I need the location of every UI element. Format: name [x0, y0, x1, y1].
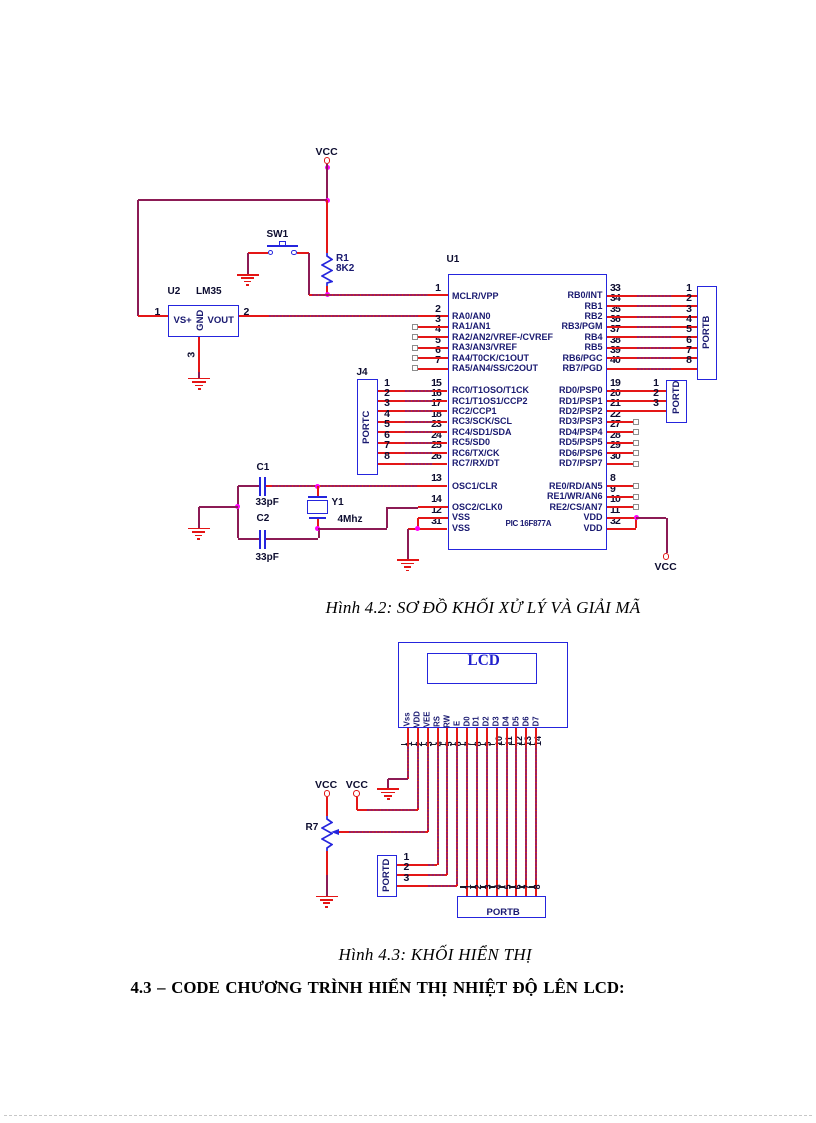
wire U1 pin 35 (RB2) to PORTB [607, 316, 697, 318]
U1 right pin name VDD [483, 524, 603, 533]
switch SW1 body [267, 241, 298, 256]
crystal Y1 refdes [332, 498, 344, 508]
IC U1 PIC16F877A body [448, 274, 608, 550]
wire stub U1 pin 27 [607, 431, 633, 433]
U1 pin number 8 [610, 473, 616, 484]
PORTB pin number 1 [572, 283, 692, 294]
connector J4 refdes [357, 368, 368, 378]
PORTB display pin tick 5 [499, 886, 505, 888]
potentiometer R7 body [321, 816, 333, 851]
LCD pin number tick 3 [420, 744, 426, 746]
wire OSC2 to U1 pin 14 (maroon) [387, 507, 418, 509]
wire U1 pin 37 (RB4) to PORTB [607, 336, 697, 338]
wire SW1 left pin [248, 252, 268, 254]
ground for LCD Vss [377, 788, 399, 801]
U1 pin number 4 [321, 324, 441, 335]
unconnected pin square (pin 29) [633, 450, 639, 456]
U1 left pin name RA0/AN0 [452, 312, 491, 321]
capacitor C2 refdes [257, 514, 270, 524]
unconnected pin square (pin 6) [412, 355, 418, 361]
PORTB display pin tick 4 [489, 886, 495, 888]
junction VSS net [415, 526, 420, 531]
PORTB display pin tick 7 [519, 886, 525, 888]
U2 pin number 2 [244, 307, 250, 318]
wire OSC2 bottom rail [318, 528, 388, 530]
U1 pin number 35 [610, 304, 620, 315]
LCD pin number tick 14 [529, 744, 535, 746]
wire U1 pin 21 (RD2) to PORTD [607, 410, 667, 412]
power symbol VCC pin circle (top) [324, 157, 331, 164]
U2 pin number 3 (rotated) [187, 295, 199, 415]
junction ground rail tap [235, 504, 240, 509]
resistor R1 value 8K2 [336, 264, 354, 274]
U1 pin number 25 [321, 440, 441, 451]
U2 pin name VOUT [208, 316, 234, 326]
LCD pin name RW (rotated) [443, 661, 452, 781]
wire VCC branch to left rail [138, 199, 328, 201]
wire J4 pin 7 to U1 (RC6) [378, 452, 448, 454]
U1 right pin name RD0/PSP0 [483, 386, 603, 395]
LCD label [468, 653, 500, 668]
wire C2 to crystal bottom [318, 528, 320, 538]
PORTB display pin number 2 (rotated) [474, 827, 484, 947]
LCD pin number 3 (rotated) [425, 684, 435, 804]
wire stub U1 pin 30 [607, 463, 633, 465]
wire J4 pin 4 to U1 (RC3) [378, 421, 448, 423]
wire C2 bottom right segment [266, 538, 318, 540]
LCD pin number 7 (rotated) [464, 684, 474, 804]
U1 left pin name RC4/SD1/SDA [452, 428, 512, 437]
wire stub U1 pin 5 [418, 347, 448, 349]
resistor R1 body [321, 253, 333, 286]
PORTB display pin tick 6 [509, 886, 515, 888]
unconnected pin square (pin 4) [412, 334, 418, 340]
PORTB display pin number 4 (rotated) [494, 827, 504, 947]
PORTB display pin tick 1 [460, 886, 466, 888]
LCD module outer body [398, 642, 568, 728]
LCD pin name VEE (rotated) [424, 659, 433, 779]
connector PORTD body (display) [377, 855, 397, 898]
wire U1 pin 38 (RB5) to PORTB [607, 347, 697, 349]
wire R7 bottom [326, 851, 328, 875]
U2 pin number 1 [155, 307, 161, 318]
LCD pin number tick 10 [489, 744, 495, 746]
U1 right pin name RD3/PSP3 [483, 417, 603, 426]
power symbol VCC net label (top) [316, 147, 338, 158]
wire stub U1 pin 7 [418, 368, 448, 370]
unconnected pin square (pin 22) [633, 419, 639, 425]
U1 pin number 9 [610, 484, 616, 495]
PORTB display pin tick 8 [529, 886, 535, 888]
LCD pin number 2 (rotated) [415, 684, 425, 804]
wire SW1 right pin [297, 252, 309, 254]
U1 right pin name RB2 [483, 312, 603, 321]
connector PORTD label (rotated) [672, 337, 683, 457]
wire stub U1 pin 4 [418, 336, 448, 338]
wire ground rail left of caps [237, 486, 239, 538]
LCD pin name D1 (rotated) [473, 661, 482, 781]
wire ground tap vertical [198, 507, 200, 529]
wire J4 pin 1 to U1 (RC0) [378, 390, 448, 392]
PORTB display pin number 5 (rotated) [504, 827, 514, 947]
PORTD display pin number 2 [404, 862, 410, 873]
U1 right pin name RB0/INT [483, 291, 603, 300]
wire Vss ground drop [387, 779, 389, 789]
U1 pin number 13 [321, 473, 441, 484]
potentiometer R7 wiper arrow [331, 829, 339, 835]
wire LCD pin 10 (D3) to PORTB [496, 728, 498, 897]
U1 right pin name RE1/WR/AN6 [483, 492, 603, 501]
wire ground tap horizontal [199, 506, 238, 508]
wire LCD pin 12 (D5) to PORTB [515, 728, 517, 897]
U1 left pin name OSC2/CLK0 [452, 503, 503, 512]
U1 pin number 38 [610, 335, 620, 346]
LCD pin name D5 (rotated) [512, 661, 521, 781]
wire VEE to R7 wiper [339, 831, 428, 833]
wire LCD pin 4 drop to PORTD [437, 728, 439, 866]
unconnected pin square (pin 9) [633, 494, 639, 500]
wire U1 pin 31 VSS stub [408, 528, 448, 530]
wire LCD pin 2 (VDD) drop [417, 728, 419, 811]
wire VCC to R7 top [326, 797, 328, 816]
ground below R7 [316, 896, 338, 909]
connector PORTD body [666, 380, 687, 424]
wire LM35 pin 1 stub [138, 315, 168, 317]
junction crystal bottom / OSC2 [315, 526, 320, 531]
U1 pin number 27 [610, 419, 620, 430]
wire U2 pin 3 to ground [198, 337, 200, 372]
power symbol VCC circle (R7) [324, 790, 331, 797]
LCD pin number 5 (rotated) [445, 684, 455, 804]
PORTB display pin number 3 (rotated) [484, 827, 494, 947]
IC U1 refdes [447, 255, 460, 265]
LCD pin name D7 (rotated) [532, 661, 541, 781]
wire stub U1 pin 6 [418, 357, 448, 359]
U1 pin number 24 [321, 430, 441, 441]
resistor R1 refdes [336, 254, 349, 264]
capacitor C2 plates [259, 530, 266, 549]
wire PORTD pin 2 horizontal [397, 874, 447, 876]
wire SW1 right down to MCLR net [308, 253, 310, 295]
wire LCD pin 8 (D1) to PORTB [476, 728, 478, 897]
PORTB display pin tick 3 [480, 886, 486, 888]
U1 pin number 28 [610, 430, 620, 441]
wire left rail down to LM35 pin1 [137, 200, 139, 316]
U1 right pin name RD4/PSP4 [483, 428, 603, 437]
sensor U2 refdes [168, 287, 181, 297]
wire LCD pin 14 (D7) to PORTB [535, 728, 537, 897]
U1 left pin name MCLR/VPP [452, 292, 499, 301]
unconnected pin square (pin 10) [633, 504, 639, 510]
wire LCD pin 5 drop to PORTD [446, 728, 448, 876]
junction VDD net [634, 515, 639, 520]
LCD pin name D4 (rotated) [502, 661, 511, 781]
capacitor C1 value 33pF [256, 498, 279, 508]
U1 pin number 6 [321, 345, 441, 356]
U2 pin name GND (rotated) [195, 260, 206, 380]
LCD pin number 1 (rotated) [405, 684, 415, 804]
power symbol VCC label (bottom right) [655, 562, 677, 573]
wire R1 bottom to MCLR net [326, 286, 328, 295]
LCD pin number tick 6 [450, 744, 456, 746]
unconnected pin square (pin 8) [633, 483, 639, 489]
LCD pin number tick 1 [401, 744, 407, 746]
U1 left pin name RC7/RX/DT [452, 459, 500, 468]
PORTB pin number 2 [572, 293, 692, 304]
U1 right pin name RD1/PSP1 [483, 397, 603, 406]
U1 pin number 33 [610, 283, 620, 294]
crystal Y1 value 4Mhz [338, 515, 363, 525]
connector PORTB body (display) [457, 896, 546, 918]
unconnected pin square (pin 28) [633, 440, 639, 446]
wire OSC1 net to U1 pin 13 [266, 485, 447, 487]
LCD pin name RS (rotated) [433, 661, 442, 781]
PORTB display pin number 6 (rotated) [514, 827, 524, 947]
wire LCD pin 1 (Vss) drop [407, 728, 409, 779]
wire OSC2 riser [386, 507, 388, 528]
U1 pin number 7 [321, 355, 441, 366]
U1 pin number 34 [610, 293, 620, 304]
wire J4 pin 8 to U1 (RC7) [378, 463, 448, 465]
wire R7 to ground [326, 875, 328, 896]
wire LCD pin 13 (D6) to PORTB [525, 728, 527, 897]
U1 left pin name RA5/AN4/SS/C2OUT [452, 364, 538, 373]
wire J4 pin 3 to U1 (RC2) [378, 410, 448, 412]
LCD pin number 6 (rotated) [454, 684, 464, 804]
wire VCC vertical to branch [326, 164, 328, 201]
PORTB pin number 8 [572, 355, 692, 366]
wire U2 VOUT to U1 pin 2 (RA0) [239, 315, 448, 317]
capacitor C1 refdes [257, 463, 270, 473]
wire stub U1 pin 8 [607, 485, 633, 487]
sensor U2 value LM35 [196, 287, 222, 297]
connector PORTB body [697, 286, 718, 381]
caption Hinh 4.2 [326, 599, 641, 616]
U1 right pin name RE2/CS/AN7 [483, 503, 603, 512]
U1 pin number 19 [610, 378, 620, 389]
wire J4 pin 2 to U1 (RC1) [378, 400, 448, 402]
J4 pin number 1 [270, 378, 390, 389]
wire U2 pin3 ground segment [198, 372, 200, 378]
unconnected pin square (pin 5) [412, 345, 418, 351]
wire J4 pin 5 to U1 (RC4) [378, 431, 448, 433]
U1 right pin name RB7/PGD [483, 364, 603, 373]
unconnected pin square (pin 7) [412, 365, 418, 371]
PORTB pin number 5 [572, 324, 692, 335]
heading 4.3 CODE [131, 980, 625, 997]
switch SW1 refdes [267, 230, 289, 240]
U1 right pin name RB6/PGC [483, 354, 603, 363]
junction R1 / MCLR net [325, 292, 330, 297]
PORTB display pin number 8 (rotated) [533, 827, 543, 947]
wire crystal top pin [317, 486, 319, 496]
U1 right pin name RD7/PSP7 [483, 459, 603, 468]
capacitor C2 value 33pF [256, 553, 279, 563]
wire LCD pin 11 (D4) to PORTB [506, 728, 508, 897]
U1 pin number 21 [610, 398, 620, 409]
wire MCLR net to U1 pin 1 [309, 294, 448, 296]
U1 right pin name VDD [483, 513, 603, 522]
J4 pin number 8 [270, 451, 390, 462]
LCD pin number tick 11 [499, 744, 505, 746]
junction dot below VCC [325, 165, 330, 170]
U1 left pin name RC2/CCP1 [452, 407, 497, 416]
power symbol VCC circle (LCD VDD) [353, 790, 360, 797]
LCD pin number tick 8 [470, 744, 476, 746]
crystal Y1 body [307, 496, 329, 519]
U1 pin number 23 [321, 419, 441, 430]
connector PORTD label (rotated, display) [382, 815, 393, 935]
junction crystal top / OSC1 [315, 484, 320, 489]
U1 right pin name RE0/RD/AN5 [483, 482, 603, 491]
U1 right pin name RB5 [483, 343, 603, 352]
U1 pin number 3 [321, 314, 441, 325]
junction node VCC branch [325, 198, 330, 203]
J4 pin number 3 [270, 398, 390, 409]
wire stub U1 pin 10 [607, 506, 633, 508]
unconnected pin square (pin 30) [633, 461, 639, 467]
PORTB pin number 7 [572, 345, 692, 356]
ground below U1 VSS [397, 559, 419, 572]
U1 pin number 20 [610, 388, 620, 399]
wire stub U1 pin 9 [607, 496, 633, 498]
LCD pin name Vss (rotated) [404, 659, 413, 779]
LCD pin number 9 (rotated) [484, 684, 494, 804]
wire Vss to ground horiz [388, 778, 408, 780]
connector PORTB label (rotated) [701, 273, 712, 393]
U1 left pin name RC6/TX/CK [452, 449, 500, 458]
wire U1 pin 36 (RB3) to PORTB [607, 326, 697, 328]
J4 pin number 5 [270, 419, 390, 430]
U2 pin name VS+ [174, 316, 192, 326]
connector PORTB label (display) [487, 908, 520, 918]
U1 pin number 5 [321, 335, 441, 346]
U1 pin number 39 [610, 345, 620, 356]
LCD pin name D0 (rotated) [463, 661, 472, 781]
U1 left pin name RC1/T1OS1/CCP2 [452, 397, 528, 406]
wire U1 pin 20 (RD1) to PORTD [607, 400, 667, 402]
J4 pin number 7 [270, 440, 390, 451]
wire SW1 left to ground [247, 253, 249, 274]
wire stub U1 pin 22 [607, 421, 633, 423]
U1 left pin name RA3/AN3/VREF [452, 343, 517, 352]
PORTB display pin number 7 (rotated) [523, 827, 533, 947]
U1 pin number 29 [610, 440, 620, 451]
wire LCD pin 3 (VEE) drop [427, 728, 429, 832]
LCD pin number 4 (rotated) [435, 684, 445, 804]
LCD pin number tick 13 [519, 744, 525, 746]
U1 left pin name RC0/T1OSO/T1CK [452, 386, 529, 395]
wire LCD pin 6 drop to PORTD [456, 728, 458, 886]
U1 left pin name VSS [452, 524, 470, 533]
U1 left pin name VSS [452, 513, 470, 522]
U1 part label PIC 16F877A [506, 520, 552, 528]
LCD pin number tick 5 [440, 744, 446, 746]
wire U1 pin 32 VDD stub [607, 528, 637, 530]
U1 pin number 22 [610, 409, 620, 420]
U1 pin number 12 [321, 505, 441, 516]
U1 left pin name RC5/SD0 [452, 438, 490, 447]
U1 right pin name RD5/PSP5 [483, 438, 603, 447]
LCD pin number 13 (rotated) [523, 681, 533, 801]
ground left of caps [188, 528, 210, 541]
wire VDD to VCC [357, 809, 418, 811]
LCD pin number tick 12 [509, 744, 515, 746]
sensor U2 LM35 body [168, 305, 239, 338]
power symbol VCC label (R7) [315, 780, 337, 791]
potentiometer R7 refdes [306, 823, 319, 833]
U1 left pin name RA1/AN1 [452, 322, 491, 331]
U1 left pin name RA4/T0CK/C1OUT [452, 354, 529, 363]
wire C2 bottom left segment [238, 538, 260, 540]
power symbol VCC circle (bottom right) [663, 553, 670, 560]
wire U1 pin 12 VSS stub [418, 517, 448, 519]
wire U1 pin 40 (RB7) to PORTB [607, 368, 697, 370]
wire VCC to R1 top [326, 200, 328, 253]
wire VSS to ground [407, 529, 409, 560]
wire OSC1 net left segment [238, 485, 260, 487]
LCD pin name VDD (rotated) [414, 659, 423, 779]
wire PORTD pin 1 horizontal [397, 864, 437, 866]
PORTB pin number 6 [572, 335, 692, 346]
wire stub U1 pin 3 [418, 326, 448, 328]
U1 pin number 1 [321, 283, 441, 294]
LCD pin name E (rotated) [453, 664, 462, 784]
U1 pin number 40 [610, 355, 620, 366]
LCD pin name D2 (rotated) [483, 661, 492, 781]
power symbol VCC label (LCD VDD) [346, 780, 368, 791]
U1 pin number 10 [610, 494, 620, 505]
capacitor C1 plates [259, 477, 266, 496]
PORTD pin number 3 [539, 398, 659, 409]
ground below U2 [188, 378, 210, 391]
LCD pin number 11 (rotated) [504, 681, 514, 801]
J4 pin number 4 [270, 409, 390, 420]
U1 pin number 37 [610, 324, 620, 335]
U1 pin number 26 [321, 451, 441, 462]
wire OSC2 to U1 pin 14 (red) [418, 506, 448, 508]
wire stub U1 pin 28 [607, 442, 633, 444]
U1 pin number 18 [321, 409, 441, 420]
wire U1 pin 11 VDD stub [607, 517, 637, 519]
U1 pin number 31 [321, 516, 441, 527]
wire VSS pin12 drop [417, 518, 419, 529]
U1 right pin name RB4 [483, 333, 603, 342]
wire U1 pin 39 (RB6) to PORTB [607, 357, 697, 359]
U1 pin number 14 [321, 494, 441, 505]
LCD pin number tick 7 [460, 744, 466, 746]
PORTB display pin number 1 (rotated) [464, 827, 474, 947]
unconnected pin square (pin 3) [412, 324, 418, 330]
U1 left pin name RC3/SCK/SCL [452, 417, 512, 426]
LCD pin number tick 4 [430, 744, 436, 746]
wire VCC drop (bottom right) [666, 518, 668, 553]
J4 pin number 2 [270, 388, 390, 399]
connector J4 PORTC body [357, 379, 378, 475]
U1 pin number 30 [610, 451, 620, 462]
wire PORTD pin 3 horizontal [397, 885, 457, 887]
wire U1 pin 34 (RB1) to PORTB [607, 305, 697, 307]
U1 pin number 15 [321, 378, 441, 389]
connector J4 label PORTC (rotated) [361, 367, 372, 487]
wire crystal bottom pin [317, 519, 319, 529]
LCD pin number 8 (rotated) [474, 684, 484, 804]
wire LCD pin 9 (D2) to PORTB [486, 728, 488, 897]
U1 pin number 11 [610, 505, 619, 516]
ground below SW1 [237, 274, 259, 287]
U1 pin number 16 [321, 388, 441, 399]
PORTD pin number 1 [539, 378, 659, 389]
